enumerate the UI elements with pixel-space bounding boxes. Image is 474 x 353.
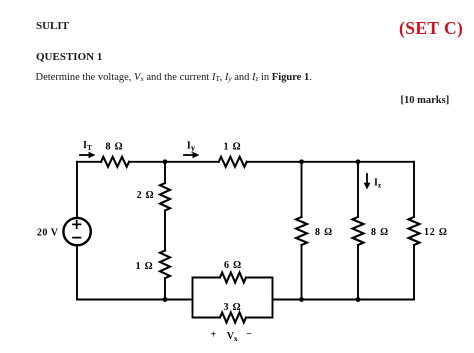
wire right rail 12ohm (413, 162, 415, 300)
resistor R 3ohm box bottom (220, 313, 246, 323)
resistor R 2ohm middle (160, 183, 170, 211)
svg-text:8 Ω: 8 Ω (106, 142, 124, 153)
node junction bottom col2 (356, 297, 361, 302)
resistor R 8ohm top (101, 157, 129, 167)
svg-text:Iz: Iz (374, 178, 382, 190)
heading QUESTION 1 (36, 51, 102, 63)
current arrow Iz (364, 174, 371, 190)
svg-text:3 Ω: 3 Ω (224, 302, 242, 313)
resistor R 1ohm middle (160, 251, 170, 279)
resistor R 8ohm column1 (296, 217, 307, 245)
svg-text:6 Ω: 6 Ω (224, 260, 242, 271)
svg-text:−: − (246, 329, 252, 340)
wire left rail (76, 162, 78, 300)
wire column 8ohm first (301, 162, 303, 300)
svg-text:Vx: Vx (227, 331, 238, 343)
svg-text:Iy: Iy (187, 141, 196, 153)
node junction top col1 (299, 159, 304, 164)
svg-text:12 Ω: 12 Ω (424, 227, 448, 238)
svg-text:1 Ω: 1 Ω (224, 142, 242, 153)
current arrow IT (80, 152, 96, 158)
node junction bottom middle (163, 297, 168, 302)
svg-text:2 Ω: 2 Ω (137, 190, 155, 201)
parallel box wires (193, 278, 273, 318)
marks label (401, 95, 450, 106)
resistor R 8ohm column2 (353, 217, 364, 245)
wire bottom rail (77, 299, 414, 301)
wire middle branch (164, 162, 166, 300)
svg-text:20 V: 20 V (37, 228, 59, 239)
resistor R 1ohm top (219, 157, 247, 167)
wire column 8ohm second (357, 162, 359, 300)
node junction bottom col1 (299, 297, 304, 302)
resistor R 6ohm box top (220, 273, 246, 283)
body text (36, 72, 312, 83)
header (SET C) (399, 18, 463, 39)
svg-text:8 Ω: 8 Ω (371, 227, 389, 238)
header SULIT (36, 20, 69, 32)
svg-text:IT: IT (83, 140, 92, 152)
node junction top middle (163, 159, 168, 164)
svg-text:8 Ω: 8 Ω (315, 227, 333, 238)
voltage source V1 20V (63, 218, 90, 245)
svg-text:1 Ω: 1 Ω (136, 261, 154, 272)
svg-text:+: + (211, 330, 217, 341)
node junction top col2 (356, 159, 361, 164)
current arrow Iy (184, 152, 200, 158)
resistor R 12ohm right (409, 217, 420, 245)
wire top rail (77, 161, 414, 163)
